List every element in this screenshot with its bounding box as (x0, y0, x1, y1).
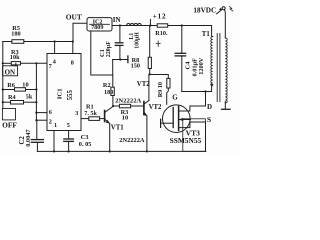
svg-text:S: S (207, 115, 211, 124)
wire R3b to VT2 base (131, 105, 144, 107)
svg-text:8: 8 (71, 60, 74, 67)
wire secondary bottom terminal (224, 102, 226, 109)
svg-text:180: 180 (11, 31, 20, 38)
wire OUT drop (73, 23, 87, 41)
wire pin3 to R1 (81, 118, 89, 120)
svg-text:5: 5 (67, 122, 70, 129)
svg-text:7809: 7809 (91, 25, 103, 31)
wire R1 to VT1 base (100, 118, 105, 120)
wire R3b (113, 105, 119, 107)
svg-text:2N2222A: 2N2222A (119, 137, 145, 144)
resistor R5 (12, 40, 24, 44)
svg-text:D: D (207, 103, 212, 111)
transistor VT2 emitter arrow (143, 113, 147, 117)
transistor Q VT2 (143, 102, 145, 115)
resistor R6 (3, 89, 15, 91)
resistor R9 (167, 78, 170, 88)
svg-text:ON: ON (5, 69, 16, 77)
VT3 label box (183, 119, 206, 152)
wire 9V rail top (3, 41, 73, 43)
svg-text:2N2222A: 2N2222A (115, 98, 141, 105)
svg-text:IC1: IC1 (57, 88, 64, 99)
svg-text:1: 1 (54, 122, 57, 129)
svg-text:SSM5N55: SSM5N55 (170, 136, 202, 145)
svg-text:C3: C3 (81, 134, 90, 141)
svg-text:OUT: OUT (66, 13, 82, 22)
wire R2 to VT1 collector (112, 96, 114, 107)
inductor L1 (127, 24, 142, 26)
svg-text:10k: 10k (10, 54, 20, 61)
svg-text:OFF: OFF (2, 121, 17, 130)
svg-text:18VDC: 18VDC (193, 7, 216, 15)
IC2 7809 box (87, 18, 112, 31)
svg-text:7: 7 (49, 63, 52, 70)
svg-text:150: 150 (131, 62, 140, 69)
wire left vertical bus (35, 63, 37, 120)
wire pin2 (36, 119, 47, 121)
svg-text:6: 6 (49, 109, 52, 116)
resistor R2 (111, 87, 114, 95)
resistor R1 (89, 117, 100, 121)
svg-text:2: 2 (49, 119, 52, 126)
svg-text:VT2: VT2 (137, 81, 150, 88)
svg-text:555: 555 (67, 90, 74, 101)
plus mark (156, 41, 160, 46)
MOSFET substrate terminal (160, 119, 162, 127)
svg-text:180: 180 (104, 89, 113, 96)
op-amp U1 IC1 555 box (47, 54, 81, 131)
transformer T1 secondary (225, 38, 227, 103)
18VDC terminal (222, 7, 225, 10)
capacitor C4 (181, 26, 183, 54)
svg-text:4: 4 (53, 58, 56, 65)
18VDC arrowhead (219, 8, 222, 11)
ground rail bottom (37, 150, 205, 152)
wire pin1 (53, 131, 55, 152)
transistor VT1 emitter arrow (106, 120, 110, 124)
svg-text:VT2: VT2 (149, 104, 162, 111)
resistor R8 (148, 57, 151, 68)
svg-text:R10.: R10. (155, 30, 168, 37)
wire secondary top to 18VDC (224, 10, 227, 38)
svg-text:0. 05: 0. 05 (79, 141, 92, 148)
MOSFET VT3 (163, 105, 191, 133)
svg-text:5k: 5k (26, 93, 33, 100)
wire pin8 (72, 42, 74, 54)
svg-text:+12: +12 (153, 12, 167, 20)
transformer core (216, 34, 218, 102)
capacitor C2 (36, 120, 38, 139)
svg-text:IN: IN (113, 16, 121, 24)
svg-text:T1: T1 (202, 31, 211, 38)
wire R9 to gate (167, 88, 169, 104)
resistor R3 top (3, 62, 12, 64)
svg-text:220μF: 220μF (106, 41, 112, 57)
svg-text:10: 10 (22, 82, 28, 89)
transistor Q VT1 (104, 111, 106, 122)
svg-text:R4: R4 (8, 94, 17, 101)
wire to R9 (150, 75, 169, 79)
wire IC2 out right (112, 26, 213, 37)
switch ON box (3, 66, 18, 76)
capacitor C3 (68, 131, 70, 139)
wire C1 gnd stub (113, 59, 128, 61)
transformer T1 primary (211, 37, 213, 86)
resistor R3 base (119, 104, 130, 108)
wire IC2 gnd (91, 31, 113, 87)
resistor R4 (3, 101, 11, 103)
MOSFET body arrow (179, 118, 184, 121)
svg-text:0.0047: 0.0047 (25, 129, 32, 146)
wire primary bottom (182, 85, 213, 92)
svg-text:1200V: 1200V (198, 57, 205, 75)
svg-text:100μH: 100μH (135, 32, 141, 49)
switch OFF box (2, 109, 15, 120)
svg-text:R9 10: R9 10 (157, 82, 164, 97)
wire pin4 (54, 42, 56, 54)
resistor R10 (157, 24, 168, 27)
svg-text:R1: R1 (86, 104, 94, 111)
svg-text:G: G (172, 93, 178, 101)
svg-text:VT1: VT1 (111, 124, 124, 131)
wire pin6 (36, 112, 47, 114)
svg-text:10: 10 (122, 115, 128, 122)
wire R8 feed (149, 26, 151, 58)
wire left rail (2, 42, 4, 109)
svg-text:R6: R6 (7, 82, 15, 89)
capacitor C1 (119, 26, 121, 43)
wire +12 tick (149, 20, 151, 26)
svg-text:7. 5k: 7. 5k (84, 111, 97, 117)
svg-text:3: 3 (75, 110, 78, 117)
